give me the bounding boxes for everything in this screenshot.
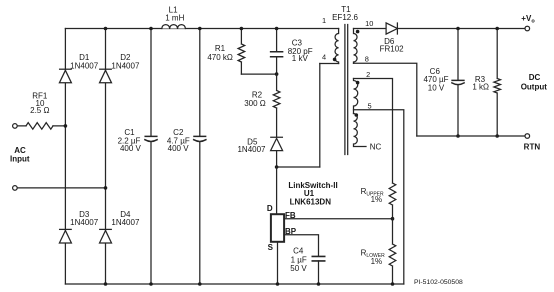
svg-text:BP: BP [285, 227, 297, 236]
wire R1 bottom to C3 column [241, 73, 276, 75]
diode D6 [386, 23, 397, 34]
node C6 bottom [456, 134, 460, 138]
terminal +Vo [525, 26, 530, 31]
node bottom rail D4 [104, 282, 108, 286]
transformer T1 secondary winding [354, 29, 358, 64]
node drain [275, 165, 279, 169]
node C2 bottom [198, 282, 202, 286]
wire RTN rail [417, 135, 525, 137]
node C6 top [456, 27, 460, 31]
wire U1 drain lead [276, 167, 278, 214]
svg-text:1N4007: 1N4007 [70, 218, 99, 227]
svg-text:R1: R1 [215, 44, 226, 53]
capacitor C2 [199, 29, 201, 285]
svg-text:400 V: 400 V [120, 144, 142, 153]
resistor RLOWER [389, 219, 396, 284]
svg-text:1: 1 [322, 16, 326, 25]
op-amp U1 body (LNK613DN) [271, 214, 284, 242]
wire BP pin [284, 235, 318, 256]
svg-text:DC: DC [529, 73, 541, 82]
wire AC top lead [17, 125, 65, 127]
svg-text:LNK613DN: LNK613DN [290, 198, 332, 207]
node R1/C3 junction [275, 72, 279, 76]
node C2 top [198, 27, 202, 31]
node lower winding dot [355, 113, 359, 117]
diode D2 [100, 69, 112, 83]
node C3 top [275, 27, 279, 31]
svg-text:FB: FB [285, 211, 296, 220]
svg-text:C4: C4 [293, 246, 304, 255]
diode D5 [271, 108, 283, 167]
diode D3 [59, 229, 71, 243]
node R1 top [240, 27, 244, 31]
node T1 pin10 dot [356, 30, 360, 34]
wire pin4 horizontal [320, 63, 339, 65]
diode D1 [59, 69, 71, 83]
wire D6 to +Vo [397, 28, 525, 30]
terminal AC bottom [13, 186, 18, 191]
resistor R1 [238, 29, 245, 75]
wire pin4 vertical [319, 64, 321, 168]
svg-text:300 Ω: 300 Ω [244, 99, 266, 108]
svg-text:470 kΩ: 470 kΩ [207, 53, 233, 62]
svg-text:400 V: 400 V [168, 144, 190, 153]
svg-text:EF12.6: EF12.6 [332, 13, 358, 22]
node C4 bottom [317, 282, 321, 286]
svg-text:Input: Input [10, 154, 30, 163]
node S bottom [276, 282, 280, 286]
svg-text:4: 4 [322, 52, 326, 61]
transformer T1 core [345, 25, 348, 155]
svg-text:Output: Output [521, 83, 548, 92]
svg-text:RTN: RTN [524, 143, 541, 152]
diode D4 [100, 229, 112, 243]
svg-text:50 V: 50 V [290, 264, 307, 273]
capacitor C1 [150, 29, 152, 285]
wire pin10 to D6 [354, 28, 387, 30]
svg-text:5: 5 [367, 101, 371, 110]
capacitor C3 [276, 29, 278, 75]
node R3 bottom [495, 134, 499, 138]
svg-text:S: S [268, 243, 274, 252]
svg-text:NC: NC [370, 143, 382, 152]
node FB junction [391, 217, 395, 221]
wire pin2 [354, 79, 393, 184]
inductor L1 [162, 25, 186, 29]
wire pin5 [354, 110, 404, 284]
svg-text:1N4007: 1N4007 [70, 61, 99, 70]
node C1 bottom [149, 282, 153, 286]
node C1 top [149, 27, 153, 31]
svg-text:FR102: FR102 [380, 45, 405, 54]
node RLOWER bottom [391, 282, 395, 286]
svg-text:1N4007: 1N4007 [111, 61, 140, 70]
node top rail D2 [104, 27, 108, 31]
wire D2/D4 column [105, 29, 107, 285]
node T1 pin2 dot [356, 81, 360, 85]
wire pin8 [354, 63, 417, 136]
wire AC bottom lead [17, 187, 105, 189]
terminal RTN [525, 134, 530, 139]
wire D1/D3 column [64, 29, 66, 285]
wire U1 source lead [277, 242, 279, 284]
svg-text:1N4007: 1N4007 [237, 145, 266, 154]
resistor RF1 [26, 123, 53, 130]
svg-text:1 kV: 1 kV [292, 54, 309, 63]
resistor RUPPER [389, 183, 396, 219]
wire bottom rail [65, 283, 403, 285]
svg-text:1%: 1% [371, 257, 383, 266]
svg-text:1%: 1% [371, 195, 383, 204]
svg-text:2: 2 [366, 70, 370, 79]
wire drain node horizontal [277, 166, 320, 168]
svg-text:2.5 Ω: 2.5 Ω [30, 106, 49, 115]
node AC bottom junction [104, 186, 108, 190]
svg-text:1 kΩ: 1 kΩ [472, 82, 489, 91]
capacitor C4 [318, 261, 320, 284]
resistor R2 [273, 74, 280, 108]
svg-text:8: 8 [365, 54, 369, 63]
terminal AC top [13, 124, 18, 129]
svg-text:1 mH: 1 mH [165, 14, 184, 23]
capacitor C6 [457, 29, 459, 137]
node T1 pin4 dot [333, 58, 337, 62]
svg-text:D: D [267, 204, 273, 213]
transformer T1 primary winding [335, 29, 339, 64]
node AC top junction [64, 124, 68, 128]
wire top rail [65, 28, 338, 30]
wire FB pin [284, 218, 392, 220]
node R3 top [495, 27, 499, 31]
svg-text:+Vo: +Vo [521, 14, 535, 25]
svg-text:PI-5102-050508: PI-5102-050508 [414, 279, 463, 286]
svg-text:10 V: 10 V [428, 84, 445, 93]
resistor R3 [494, 29, 501, 137]
transformer T1 bias winding [354, 79, 358, 114]
svg-text:1N4007: 1N4007 [111, 218, 140, 227]
transformer T1 lower winding to NC [354, 114, 367, 147]
svg-text:10: 10 [365, 19, 373, 28]
